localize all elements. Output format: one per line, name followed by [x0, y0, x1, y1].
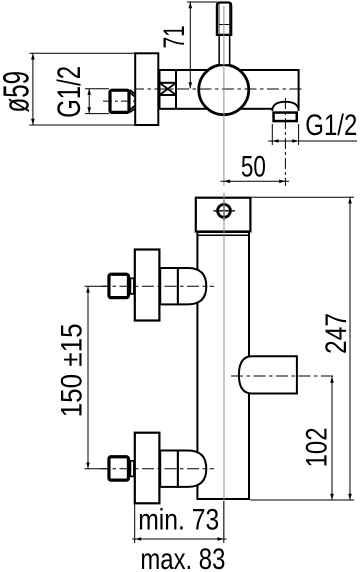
outlet nipple G1/2 (side view) — [274, 113, 297, 122]
svg-text:min. 73: min. 73 — [138, 504, 219, 537]
dimension 102 line — [331, 376, 333, 500]
vertical centerline (front view, gray) — [223, 193, 225, 541]
dimension G1/2 (left) extension lines — [85, 89, 109, 114]
main horizontal centerline — [135, 88, 303, 90]
inlet nut G1/2 (side view) — [110, 90, 129, 112]
outlet centerline — [284, 98, 286, 186]
dimension G1/2 (outlet) extension lines — [272, 124, 298, 145]
dimension 50 line — [221, 180, 290, 182]
top cap (front view) — [196, 198, 251, 232]
svg-text:G1/2: G1/2 — [305, 109, 357, 142]
upper inlet: connector piece — [130, 278, 134, 294]
dimension min 73 arrowheads — [135, 537, 224, 541]
screw cross — [213, 201, 235, 222]
dimension 247 arrowheads — [348, 197, 352, 500]
min 73 extension lines — [134, 505, 136, 544]
lower inlet: connecting rect — [160, 451, 178, 487]
upper inlet: centerline — [101, 285, 214, 287]
dimension 102 arrowheads — [330, 376, 334, 500]
svg-text:247: 247 — [320, 313, 353, 354]
shower outlet (front view) — [239, 356, 297, 393]
cartridge X diagonals — [160, 83, 177, 95]
dimension ø59 arrowheads — [31, 53, 35, 125]
dimension G1/2 (outlet) line + leader — [268, 140, 357, 142]
nut centerline — [103, 100, 137, 102]
dimension 150±15 line — [87, 286, 89, 469]
svg-text:71: 71 — [158, 25, 191, 48]
lower inlet: dome — [178, 451, 206, 487]
wall flange (side view) — [135, 53, 158, 125]
dimension ø59 line — [32, 53, 34, 125]
dimension 71 arrowheads — [189, 2, 193, 89]
upper inlet: connecting rect — [160, 268, 178, 304]
body (front view) — [197, 232, 249, 499]
upper inlet: dome — [178, 268, 206, 304]
body (side view) — [160, 70, 299, 109]
svg-text:ø59: ø59 — [0, 71, 37, 113]
handle knob — [217, 3, 231, 35]
knob inner lines — [219, 4, 230, 34]
upper inlet: flange — [135, 250, 160, 321]
cap lower double line — [197, 234, 249, 236]
dimension 71 extension line — [187, 1, 217, 3]
lower inlet: nut — [109, 457, 129, 480]
dimension 50 arrowheads — [224, 180, 286, 184]
lower inlet: flange — [135, 433, 160, 504]
dimension G1/2 (left) line — [88, 89, 90, 114]
247 top extension line — [252, 196, 355, 198]
shower outlet centerline — [231, 375, 335, 377]
cartridge X-box section divider — [175, 69, 177, 109]
svg-text:max. 83: max. 83 — [140, 543, 225, 572]
cartridge X-box — [160, 83, 177, 95]
dimension 150±15 arrowheads — [86, 286, 90, 469]
lower inlet: connector piece — [130, 461, 134, 477]
valve body circle — [199, 65, 249, 115]
lower inlet: centerline — [101, 468, 214, 470]
svg-text:102: 102 — [300, 427, 333, 467]
screw circle — [218, 204, 231, 217]
vertical centerline through handle and circle (gray) — [223, 6, 225, 186]
dimension min 73 line — [132, 538, 226, 540]
taper between nut and flange — [130, 90, 135, 112]
dimension G1/2 (left) arrowheads — [87, 89, 91, 114]
handle stem — [219, 35, 230, 65]
upper inlet: nut — [109, 274, 129, 297]
dimension 247 line — [349, 197, 351, 500]
dimension 150±15 extension lines — [85, 286, 109, 469]
svg-text:150 ±15: 150 ±15 — [55, 323, 88, 417]
outlet dome (side view) — [272, 102, 298, 111]
dimension ø59 extension lines — [29, 53, 134, 125]
dimension 71 line — [189, 2, 191, 89]
247/102 bottom extension line — [250, 499, 354, 501]
svg-text:50: 50 — [241, 151, 266, 184]
dimension G1/2 (outlet) arrowheads — [272, 139, 298, 143]
svg-text:G1/2: G1/2 — [51, 66, 87, 118]
